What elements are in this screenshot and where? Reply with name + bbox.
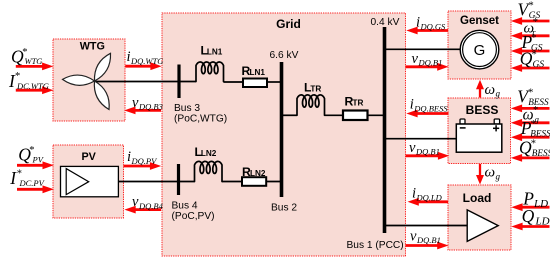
svg-text:WTG: WTG — [25, 56, 43, 66]
PV converter triangle — [66, 169, 89, 195]
svg-text:DQ.B1: DQ.B1 — [415, 147, 440, 157]
BESS block — [448, 98, 511, 164]
svg-text:DQ.B4: DQ.B4 — [138, 201, 164, 211]
label iDQ,BESS — [410, 96, 449, 113]
battery minus sign — [460, 127, 466, 129]
label Q*PV — [18, 145, 44, 165]
svg-text:G: G — [474, 42, 486, 59]
svg-text:v: v — [410, 228, 417, 244]
wire PV to bus4 to LLN2 — [118, 181, 194, 183]
wire RLN2 to bus2 — [266, 181, 283, 183]
label Q*WTG — [11, 47, 42, 67]
svg-text:DQ.B1: DQ.B1 — [416, 235, 441, 245]
svg-text:Bus 4: Bus 4 — [172, 200, 198, 211]
label Q*GS — [520, 48, 545, 70]
label LTR — [304, 81, 321, 95]
svg-text:(PoC,PV): (PoC,PV) — [172, 211, 215, 222]
arrow Q*PV into PV — [17, 164, 45, 167]
label iDQ,LD — [412, 186, 443, 203]
arrow I*DC,WTG into WTG — [16, 89, 44, 92]
arrow Q*WTG into WTG — [16, 65, 44, 68]
svg-text:6.6 kV: 6.6 kV — [270, 50, 299, 61]
label V*BESS — [517, 87, 549, 108]
arrow iDQ,PV PV to grid — [124, 165, 152, 168]
svg-text:DQ.PV: DQ.PV — [131, 156, 159, 166]
load block — [448, 185, 511, 250]
svg-text:BESS: BESS — [530, 128, 550, 138]
WTG block — [53, 39, 125, 121]
genset generator circle — [460, 30, 499, 69]
wire bus1 to genset — [384, 48, 461, 50]
arrow V*GS into genset — [520, 20, 549, 23]
svg-text:DC.PV: DC.PV — [19, 178, 46, 188]
label P,LD — [522, 188, 548, 210]
svg-text:DQ.B3: DQ.B3 — [138, 102, 163, 112]
label vDQ,B3 — [132, 95, 163, 112]
svg-text:GS: GS — [533, 60, 545, 70]
svg-text:DQ.WTG: DQ.WTG — [130, 56, 163, 66]
svg-text:v: v — [412, 51, 419, 67]
svg-text:ω: ω — [485, 165, 496, 181]
svg-text:LN2: LN2 — [250, 169, 266, 178]
svg-text:BESS: BESS — [466, 103, 499, 117]
genset inner circle — [463, 33, 497, 67]
svg-text:PV: PV — [32, 155, 45, 165]
arrow I*DC,PV into PV — [17, 188, 45, 191]
arrow vDQ,B4 grid to PV — [134, 208, 161, 211]
svg-text:(PoC,WTG): (PoC,WTG) — [174, 113, 227, 124]
grid block — [162, 13, 406, 256]
wire bus1 to BESS battery — [384, 138, 457, 140]
load triangle — [467, 210, 498, 242]
svg-text:*: * — [529, 0, 534, 11]
svg-text:v: v — [132, 194, 139, 210]
label RTR — [345, 95, 364, 109]
label LLN2 — [195, 145, 217, 159]
label wg upper — [485, 82, 501, 99]
svg-text:Genset: Genset — [460, 15, 499, 27]
svg-text:Bus 1 (PCC): Bus 1 (PCC) — [347, 240, 404, 251]
inductor LLN1 — [196, 62, 224, 82]
svg-text:i: i — [416, 15, 420, 31]
svg-text:*: * — [531, 33, 536, 44]
svg-text:g: g — [496, 171, 501, 181]
svg-text:DQ.GS: DQ.GS — [420, 22, 447, 32]
wire bus2 to LTR — [282, 114, 298, 116]
svg-text:LN2: LN2 — [201, 149, 217, 158]
label V*GS — [518, 0, 541, 21]
svg-text:TR: TR — [353, 99, 364, 108]
label vDQ,B1 bess — [409, 140, 440, 157]
label w*g — [523, 105, 539, 124]
label Q,LD — [522, 206, 550, 228]
svg-text:i: i — [412, 186, 416, 202]
label RLN2 — [242, 165, 266, 179]
genset block — [448, 11, 511, 79]
wire LLN2 to RLN2 — [222, 181, 242, 183]
svg-text:i: i — [127, 49, 131, 65]
arrow Q*GS into genset — [520, 67, 549, 70]
label vDQ,B1 genset — [412, 51, 443, 68]
arrow iDQ,WTG WTG to grid — [125, 65, 152, 68]
label LLN1 — [201, 44, 223, 58]
BESS battery terminals — [460, 119, 465, 124]
svg-text:v: v — [132, 95, 139, 111]
svg-text:LD: LD — [533, 198, 548, 210]
arrow vDQ,B1 to genset — [406, 65, 440, 68]
arrow P*BESS into BESS — [520, 136, 549, 139]
arrow wg BESS to load — [479, 164, 481, 177]
label P*GS — [521, 32, 543, 54]
bus 4 bar — [177, 164, 180, 195]
inductor LLN2 — [195, 161, 223, 181]
svg-text:DQ.LD: DQ.LD — [416, 193, 443, 203]
arrow iDQ,LD grid to load — [417, 200, 448, 203]
label w*r — [524, 17, 539, 37]
svg-text:TR: TR — [310, 85, 321, 94]
arrow vDQ,B3 grid to WTG — [134, 109, 162, 112]
PV block — [53, 145, 124, 218]
arrow P*GS into genset — [520, 50, 549, 53]
svg-text:*: * — [532, 49, 537, 60]
label iDQ,PV — [127, 149, 158, 166]
svg-text:PV: PV — [81, 151, 96, 163]
PV converter rect — [61, 166, 119, 196]
svg-text:LN1: LN1 — [250, 68, 266, 77]
BESS battery body — [456, 124, 502, 152]
arrow vDQ,B1 to load — [406, 244, 440, 247]
label iDQ,GS — [416, 15, 446, 32]
svg-text:Bus 2: Bus 2 — [271, 202, 297, 213]
label wg lower — [485, 165, 501, 182]
wire RTR to bus1 — [368, 114, 387, 116]
arrow Q*BESS into BESS — [520, 156, 549, 159]
svg-text:BESS: BESS — [532, 148, 550, 158]
label RLN1 — [242, 64, 266, 78]
svg-text:DC.WTG: DC.WTG — [16, 81, 49, 91]
svg-text:v: v — [409, 140, 416, 156]
arrow P,LD into load — [521, 206, 550, 209]
label iDQ,WTG — [127, 49, 164, 66]
wire bus1 to load — [384, 225, 467, 227]
inductor LTR — [297, 95, 325, 115]
bus 2 bar — [280, 62, 284, 197]
svg-text:Grid: Grid — [276, 17, 301, 31]
svg-text:Load: Load — [463, 191, 492, 205]
svg-text:DQ.B1: DQ.B1 — [418, 58, 443, 68]
arrow Q,LD into load — [521, 225, 550, 228]
arrow vDQ,B1 to BESS — [406, 154, 440, 157]
label I*DC,WTG — [8, 71, 49, 91]
svg-text:i: i — [127, 149, 131, 165]
arrow w*g into BESS — [520, 121, 549, 124]
WTG turbine blades — [63, 53, 111, 109]
label vDQ,B4 — [132, 194, 164, 211]
svg-text:g: g — [496, 89, 501, 99]
resistor RTR — [343, 111, 368, 121]
battery plus sign — [493, 127, 499, 129]
resistor RLN2 — [242, 177, 266, 186]
label I*DC,PV — [9, 168, 45, 188]
svg-text:ω: ω — [485, 82, 496, 98]
svg-text:Q: Q — [522, 206, 535, 226]
arrow iDQ,GS grid to genset — [416, 29, 448, 32]
label P*BESS — [520, 118, 550, 139]
svg-text:WTG: WTG — [80, 41, 105, 53]
arrow w*r into genset — [520, 34, 549, 37]
svg-text:i: i — [410, 96, 414, 112]
bus 1 (PCC) bar — [383, 27, 387, 233]
svg-text:0.4 kV: 0.4 kV — [371, 17, 400, 28]
svg-text:LD: LD — [535, 216, 550, 228]
wire WTG to bus3 to LLN1 — [95, 81, 197, 83]
label Q*BESS — [519, 137, 550, 158]
arrow iDQ,BESS grid to BESS — [416, 112, 449, 115]
wire LTR to RTR — [325, 114, 344, 116]
svg-text:LN1: LN1 — [207, 48, 223, 57]
arrow V*BESS into BESS — [520, 107, 549, 110]
arrow wg BESS to genset — [479, 87, 481, 97]
bus 3 bar — [177, 65, 180, 99]
svg-text:DQ.BESS: DQ.BESS — [413, 103, 448, 113]
wire LLN1 to RLN1 — [224, 81, 244, 83]
wire RLN1 to bus2 — [267, 81, 283, 83]
label vDQ,B1 load — [410, 228, 441, 245]
resistor RLN1 — [243, 79, 267, 88]
